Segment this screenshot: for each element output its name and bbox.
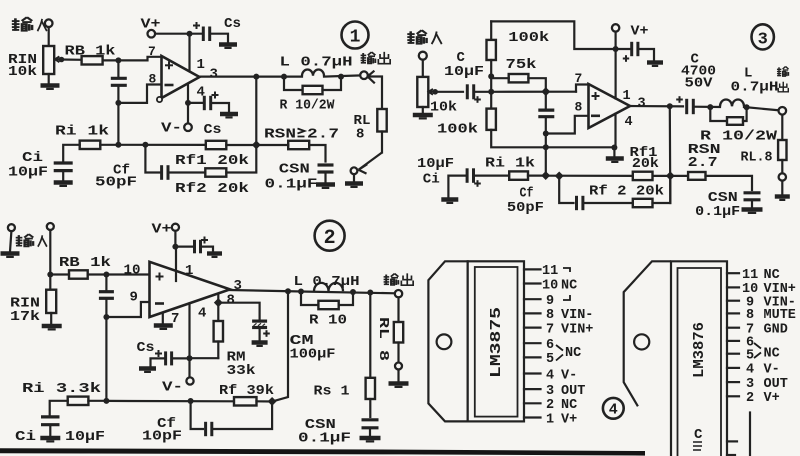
pin 8 line U2	[217, 294, 219, 303]
Rf2 row (circuit 3)	[559, 176, 573, 203]
inductor L 0.7uH (circuit 1)	[302, 70, 324, 76]
svg-text:C: C	[694, 427, 703, 443]
resistor R 10/2W (circuit 1)	[303, 86, 323, 94]
pin 2 LM3875	[524, 402, 541, 404]
pin 2 LM3876	[727, 395, 739, 397]
wire node to RSN	[256, 144, 288, 146]
wire V+ down (circuit 3)	[614, 32, 616, 49]
output wire U3	[630, 105, 683, 108]
node L right junction (circuit 2)	[350, 289, 356, 295]
svg-text:NC: NC	[565, 346, 581, 361]
wire Ri right (circuit 2)	[88, 400, 106, 402]
IC U4 LM3875 tab	[428, 261, 467, 421]
wire L to Rs node and output terminal	[301, 292, 395, 294]
svg-text:3: 3	[746, 377, 754, 392]
jack arrow from output to RL	[368, 71, 383, 109]
svg-text:Rf 2 20k: Rf 2 20k	[589, 184, 664, 200]
resistor RIN 17k (circuit 2)	[49, 275, 51, 290]
svg-text:10pF: 10pF	[142, 429, 182, 445]
resistor Rf 39k	[234, 397, 257, 405]
pin 6 LM3875	[524, 342, 541, 344]
potentiometer 10k (circuit 3)	[417, 77, 428, 107]
svg-text:3: 3	[638, 97, 646, 112]
resistor RL 8 (circuit 1)	[377, 109, 386, 132]
NC bracket pins 6/5 LM3875	[556, 345, 563, 361]
node 75k junction	[488, 73, 494, 79]
wire Rf1 to feedback node	[226, 144, 256, 146]
svg-text:R 10/2W: R 10/2W	[280, 98, 336, 114]
node V+ junction (circuit 2)	[172, 244, 178, 250]
svg-text:8: 8	[356, 127, 364, 143]
svg-text:10μF: 10μF	[8, 165, 48, 181]
svg-text:LM3876: LM3876	[691, 322, 708, 378]
svg-text:V-: V-	[764, 363, 780, 378]
capacitor Ci 10uF (circuit 2)	[41, 417, 60, 425]
wire Rs to CSN (circuit 2)	[369, 399, 371, 417]
jack arrow lower (circuit 1)	[359, 153, 383, 174]
svg-text:2: 2	[546, 398, 554, 413]
node L right junction	[338, 74, 344, 80]
wire Ci left to ground (circuit 3)	[448, 176, 467, 198]
NC bracket pins 11/9 LM3875	[563, 268, 570, 300]
ground Cs lower (circuit 2)	[139, 369, 156, 372]
node output junction 1	[253, 74, 259, 80]
svg-text:GND: GND	[764, 323, 788, 338]
capacitor CSN 0.1uF (circuit 3)	[744, 193, 761, 200]
resistor RB 1k	[82, 56, 103, 64]
node L left junction (circuit 2)	[298, 289, 304, 295]
pin 4 supply line U1	[187, 84, 189, 103]
wire Cf to Rf2 (circuit 3)	[583, 202, 633, 204]
node V+ junction (circuit 3)	[613, 46, 619, 52]
speaker return terminal (circuit 1)	[351, 167, 358, 174]
wire node to RSN (circuit 3)	[670, 175, 688, 177]
potentiometer RIN 10k	[43, 46, 54, 74]
vertical output label (circuit 3)	[777, 67, 789, 77]
svg-text:Ri 3.3k: Ri 3.3k	[22, 381, 101, 397]
pin 10 LM3876	[727, 286, 739, 288]
resistor Rf1 20k (circuit 3)	[633, 172, 653, 180]
resistor 100k lower	[487, 109, 496, 130]
svg-text:Cs: Cs	[204, 122, 222, 138]
svg-text:100k: 100k	[508, 30, 549, 46]
wire RSN to CSN	[309, 145, 325, 162]
wire RL to terminal (circuit 2)	[397, 343, 399, 363]
ground return (circuit 2)	[397, 370, 399, 382]
svg-text:NC: NC	[764, 347, 780, 362]
svg-text:VIN+: VIN+	[561, 322, 593, 337]
ground under RIN	[48, 74, 50, 84]
capacitor CSN 0.1uF (circuit 2)	[362, 420, 379, 428]
svg-text:V+: V+	[631, 24, 649, 40]
ground pin 7 (U2)	[154, 326, 173, 329]
ground CSN (circuit 3)	[742, 210, 763, 213]
pin 4 LM3876	[727, 367, 739, 369]
svg-text:6: 6	[546, 338, 554, 353]
wire node down to V- (circuit 2)	[188, 358, 190, 377]
svg-text:Ri 1k: Ri 1k	[55, 124, 109, 140]
svg-text:2.7: 2.7	[688, 155, 718, 171]
cap to ground at pin8 node (circuit 2)	[218, 303, 259, 320]
svg-text:4: 4	[746, 363, 754, 378]
svg-text:4: 4	[546, 368, 554, 383]
pin 1 LM3875	[524, 416, 541, 418]
pin 1 supply line U1	[188, 34, 190, 71]
wire Cf to Rf2	[168, 171, 205, 173]
mounting hole LM3875	[437, 334, 452, 349]
svg-text:75k: 75k	[506, 57, 537, 73]
wire Cs lower to ground	[211, 103, 229, 112]
svg-text:V+: V+	[561, 412, 577, 427]
ground Ci (circuit 3)	[441, 200, 458, 203]
ground for return terminal	[353, 174, 355, 181]
output terminal (circuit 3)	[779, 107, 787, 115]
svg-text:RL 8: RL 8	[375, 317, 390, 361]
svg-text:50V: 50V	[685, 76, 714, 92]
node pin10 junction	[103, 272, 109, 278]
wire R to node	[323, 77, 342, 90]
resistor RB 1k (circuit 2)	[69, 270, 88, 278]
capacitor Cs (circuit 3)	[616, 48, 630, 50]
circled number 2	[315, 221, 345, 251]
pin 5 LM3876	[727, 353, 739, 355]
wire Cs to pin4 node	[172, 357, 190, 359]
svg-text:V-: V-	[161, 121, 182, 137]
node pin4 ground row	[611, 145, 617, 151]
svg-text:5: 5	[546, 352, 554, 367]
svg-text:V+: V+	[141, 17, 161, 33]
svg-text:Rs 1: Rs 1	[314, 384, 350, 400]
svg-text:10μF: 10μF	[417, 156, 454, 172]
svg-text:3: 3	[210, 67, 218, 83]
node A junction	[115, 57, 121, 63]
svg-text:OUT: OUT	[561, 384, 585, 399]
resistor Rf1 20k	[206, 141, 227, 149]
branch RL 8 (circuit 2)	[397, 297, 399, 322]
wire Cs to ground (circuit 2)	[201, 247, 214, 252]
ground for Cs lower	[220, 114, 238, 117]
resistor RSN 2.7 (circuit 3)	[688, 172, 705, 180]
top rail (circuit 3)	[491, 21, 615, 49]
svg-text:2.7: 2.7	[307, 127, 339, 143]
svg-text:50pF: 50pF	[95, 175, 137, 191]
node output junction (circuit 3)	[667, 103, 673, 109]
svg-text:Ci: Ci	[423, 172, 440, 188]
wire Ci to Ri (circuit 3)	[474, 175, 510, 177]
circled number 1	[342, 22, 369, 49]
svg-text:3: 3	[546, 384, 554, 399]
V+ terminal (circuit 1)	[148, 30, 156, 38]
ground pin4 row (circuit 3)	[613, 148, 615, 157]
wire RB left (circuit 2)	[50, 273, 69, 275]
svg-text:RB 1k: RB 1k	[59, 255, 111, 271]
input row to pin 7 (circuit 3)	[491, 91, 576, 93]
wire RB to node A	[103, 59, 119, 61]
wire node B to op-amp pin 8	[118, 85, 161, 103]
svg-text:5: 5	[746, 349, 754, 364]
input terminal (circuit 3)	[419, 52, 427, 60]
wire node to RM bottom	[190, 357, 219, 359]
wire RSN to CSN (circuit 3)	[706, 176, 753, 190]
CM line from output	[272, 291, 288, 401]
wire pin4 node to V-	[187, 103, 189, 123]
wire mid column down (circuit 3)	[545, 134, 547, 176]
node Ri diamond 2 (circuit 3)	[555, 171, 564, 180]
V+ terminal (circuit 3)	[612, 24, 619, 31]
ground Cs upper (circuit 2)	[207, 254, 222, 257]
parallel branch to R 10/2W	[284, 77, 303, 90]
parallel R 10/2W (circuit 3)	[710, 107, 727, 121]
capacitor Cf 50pF (circuit 1)	[162, 165, 168, 180]
capacitor Cs upper (circuit 2)	[175, 246, 193, 248]
IC U4 LM3875 body	[468, 261, 524, 421]
svg-text:1: 1	[197, 57, 205, 73]
svg-text:8: 8	[227, 293, 235, 309]
node Ri diamond 1 (circuit 3)	[541, 171, 550, 180]
capacitor CSN 0.1uF (circuit 1)	[318, 165, 334, 172]
inductor L 0.7uH (circuit 3)	[720, 100, 744, 107]
wire Ri left (circuit 2)	[50, 401, 68, 416]
wire node down to Ri row (circuit 2)	[105, 317, 107, 401]
svg-text:1: 1	[350, 28, 361, 48]
output wire U1 to L	[200, 75, 303, 77]
svg-text:Rf1 20k: Rf1 20k	[175, 153, 249, 169]
svg-text:Ri 1k: Ri 1k	[485, 156, 535, 172]
mounting hole LM3876	[634, 334, 649, 349]
pin 7 LM3875	[524, 327, 541, 329]
wire input down (circuit 2)	[49, 230, 51, 275]
svg-text:7: 7	[575, 71, 583, 86]
svg-text:0.1μF: 0.1μF	[695, 204, 740, 220]
input label 输入 (circuit 3)	[407, 30, 426, 44]
wire input to RIN pot	[48, 27, 50, 46]
wire Ri left	[63, 145, 79, 161]
svg-text:L 0.7μH: L 0.7μH	[280, 55, 353, 71]
pin 4 line U2	[188, 304, 190, 358]
wire output node to feedback node	[255, 77, 257, 145]
capacitor C 4700uF 50V	[687, 99, 694, 114]
svg-text:10: 10	[124, 263, 141, 279]
node V+ junction	[187, 31, 193, 37]
svg-text:L 0.7μH: L 0.7μH	[294, 274, 360, 290]
svg-text:50pF: 50pF	[507, 200, 544, 216]
node pin9 junction	[103, 314, 109, 320]
svg-text:7: 7	[546, 322, 554, 337]
pin 4 line U3	[614, 114, 616, 148]
svg-text:2: 2	[746, 391, 754, 406]
pin 11 LM3876	[727, 272, 739, 274]
resistor RSN 2.7 (circuit 1)	[288, 141, 309, 149]
svg-text:3: 3	[234, 278, 242, 294]
svg-text:2: 2	[324, 227, 336, 250]
wire Ri right	[100, 144, 118, 146]
op-amp U1	[162, 56, 200, 98]
svg-text:8: 8	[746, 308, 754, 323]
pin 7 line U2	[162, 313, 164, 324]
node Ri junction (circuit 2)	[103, 398, 109, 404]
node L right (circuit 3)	[744, 104, 750, 110]
wire V+ to Cs	[155, 33, 203, 35]
svg-text:CSN: CSN	[279, 162, 310, 178]
svg-text:1: 1	[185, 263, 193, 279]
capacitor Cs lower (circuit 2)	[155, 350, 162, 357]
pin 11 LM3875	[524, 268, 541, 270]
svg-text:100μF: 100μF	[290, 347, 336, 363]
node pin8 (circuit 3)	[543, 131, 549, 137]
wire C to node column (circuit 3)	[474, 91, 492, 93]
pin 6 LM3876	[727, 340, 739, 342]
input terminal (circuit 2)	[47, 223, 54, 230]
node B junction	[115, 100, 121, 106]
capacitor node A to node B	[117, 60, 119, 77]
ground bar input (circuit 2)	[1, 254, 20, 257]
input label 输入 (circuit 1)	[12, 17, 32, 31]
svg-text:4: 4	[609, 402, 618, 419]
ground for cap (circuit 2 pin8)	[252, 343, 268, 346]
node output junction 2	[281, 74, 287, 80]
wire node A to op-amp pin 7	[118, 57, 161, 61]
NC bracket pins 6/5 LM3876	[754, 343, 761, 358]
pin 9 LM3876	[727, 300, 739, 302]
svg-text:8: 8	[575, 100, 583, 115]
svg-text:33k: 33k	[227, 363, 256, 379]
svg-text:NC: NC	[561, 398, 577, 413]
svg-text:1: 1	[546, 412, 554, 427]
V+ terminal (circuit 2)	[172, 224, 179, 231]
node Cs/pin4 (circuit 2)	[187, 355, 193, 361]
pin 10 LM3875	[524, 282, 541, 284]
wire Cs to ground (circuit 3)	[638, 49, 654, 61]
wire V+ down (circuit 2)	[174, 231, 176, 247]
svg-text:11: 11	[742, 268, 758, 283]
node pin8 diamond (U2)	[214, 298, 223, 307]
svg-text:10k: 10k	[430, 100, 457, 116]
wire 100k upper to node	[490, 60, 492, 76]
circled number 3	[752, 24, 774, 49]
svg-text:MUTE: MUTE	[764, 308, 796, 323]
return terminal (circuit 2)	[395, 363, 402, 370]
resistor Rs 1	[366, 378, 375, 399]
input label 输入 (circuit 2)	[16, 234, 34, 246]
wire Rf to CM node	[257, 400, 273, 402]
node mid column diamond (circuit 3)	[541, 87, 550, 96]
pin 4 LM3875	[524, 372, 541, 374]
svg-text:100k: 100k	[437, 122, 478, 138]
node RB junction (circuit 2)	[47, 272, 53, 278]
ground return (circuit 3)	[781, 181, 783, 195]
output wire U2	[230, 290, 301, 292]
svg-text:0.1μF: 0.1μF	[298, 431, 351, 447]
wire Cf to node (circuit 2)	[212, 402, 272, 430]
svg-text:Ci: Ci	[15, 429, 36, 445]
svg-text:NC: NC	[764, 268, 780, 283]
svg-text:11: 11	[542, 264, 558, 279]
parallel branch R 10 (circuit 2)	[301, 292, 318, 306]
feedback row wire (circuit 3)	[546, 175, 671, 177]
wire Rf2 to output column (circuit 3)	[653, 176, 671, 203]
ground for CSN (circuit 1)	[316, 185, 335, 188]
wire RB to op-amp pin 10	[88, 273, 150, 275]
wire node B down to feedback node	[117, 103, 119, 145]
circled number 4	[603, 398, 624, 419]
svg-text:9: 9	[546, 294, 554, 309]
resistor Ri 1k (circuit 3)	[509, 171, 528, 179]
return terminal (circuit 3)	[779, 173, 786, 180]
circuit 1 input terminal	[45, 19, 53, 27]
svg-text:7: 7	[148, 44, 156, 59]
pin 8 LM3876	[727, 312, 739, 314]
svg-text:8: 8	[546, 308, 554, 323]
feedback row wire (circuit 2)	[106, 400, 234, 403]
op-amp U2	[150, 262, 231, 317]
capacitor Cs lower (circuit 1)	[204, 96, 210, 110]
inductor L 0.7uH (circuit 2)	[314, 283, 343, 291]
wire Rf2 to feedback node	[226, 145, 256, 173]
capacitor Ci 10uF (circuit 1)	[54, 163, 73, 171]
wire pot to C (circuit 3)	[434, 91, 463, 93]
wire L to output terminal (circuit 3)	[744, 107, 779, 110]
ground CSN (circuit 2)	[360, 438, 381, 441]
pin 3 LM3875	[524, 388, 541, 390]
svg-text:4: 4	[625, 115, 633, 130]
svg-text:8: 8	[149, 72, 157, 87]
output column wire (circuit 3)	[669, 106, 672, 203]
Cf branch (circuit 2)	[191, 401, 203, 429]
node Cf junction	[142, 142, 148, 148]
IC U5 LM3876 tab	[624, 261, 671, 406]
svg-text:10k: 10k	[8, 64, 37, 80]
pin 8 LM3875	[524, 312, 541, 314]
svg-text:VIN-: VIN-	[561, 308, 593, 323]
pin 7 LM3876	[727, 327, 739, 329]
svg-text:LM3875: LM3875	[488, 307, 505, 378]
wire input to pot (circuit 3)	[422, 60, 424, 77]
svg-text:V-: V-	[561, 368, 577, 383]
wire pin4 node to Cs lower	[188, 102, 204, 104]
node output column diamond (circuit 3)	[666, 171, 675, 180]
svg-text:V-: V-	[162, 380, 183, 396]
wire to RL (circuit 3)	[781, 115, 783, 140]
svg-text:V+: V+	[152, 222, 172, 238]
ground terminal (circuit 2 input)	[8, 224, 15, 231]
capacitor under node pin10	[105, 275, 107, 291]
branch Rs 1	[369, 293, 371, 378]
resistor 100k upper	[490, 21, 492, 40]
svg-text:9: 9	[130, 290, 138, 306]
ground for Ci (circuit 1)	[54, 183, 73, 186]
svg-text:Rf2 20k: Rf2 20k	[175, 181, 249, 197]
Cf branch wire	[145, 145, 159, 173]
svg-text:Cs: Cs	[137, 340, 155, 356]
capacitor Cs upper (circuit 1)	[203, 27, 209, 42]
wire C4700 to L (circuit 3)	[693, 106, 720, 109]
svg-text:Rf 39k: Rf 39k	[219, 383, 274, 399]
bottom black bar	[0, 448, 645, 455]
resistor Rf2 20k (circuit 3)	[633, 199, 653, 207]
resistor Rf2 20k	[205, 168, 226, 176]
svg-text:R 10: R 10	[309, 313, 347, 329]
pin 1 supply line U2	[175, 247, 177, 281]
wire L to output terminal	[324, 75, 361, 76]
svg-text:20k: 20k	[632, 156, 659, 172]
node pin4 junction	[185, 100, 191, 106]
wire node to pin 8 (U3)	[546, 116, 589, 134]
wire 75k leads	[491, 77, 509, 79]
resistor Ri 1k (circuit 1)	[80, 141, 101, 149]
op-amp U3	[589, 84, 631, 128]
resistor RL 8 (circuit 3)	[778, 140, 786, 160]
wire 100k lower to ground row	[491, 130, 614, 147]
